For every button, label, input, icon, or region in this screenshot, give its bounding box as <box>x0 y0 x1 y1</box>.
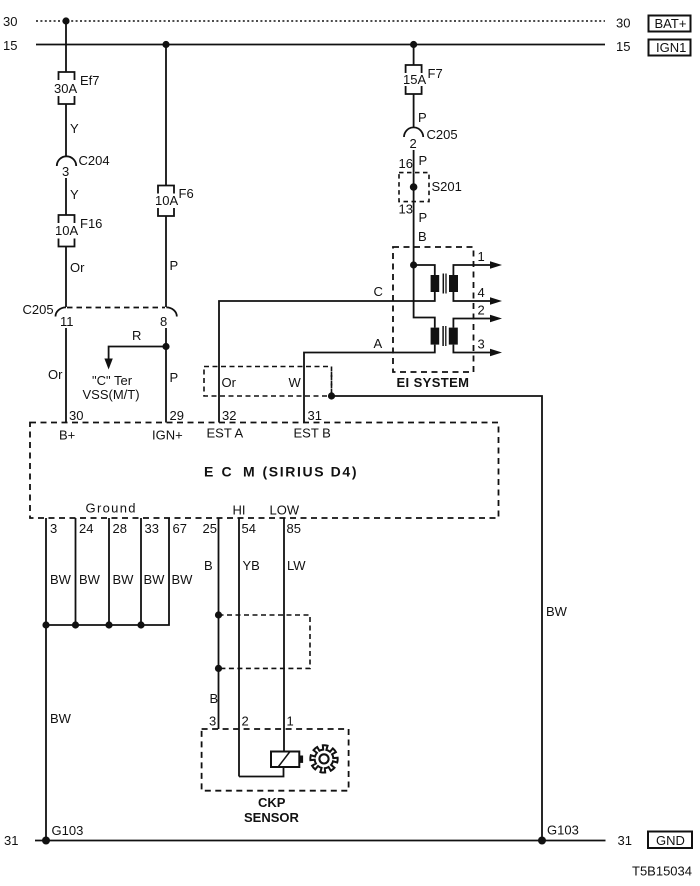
svg-text:B: B <box>210 691 219 706</box>
connector C204 pin 3 <box>57 153 110 179</box>
svg-text:24: 24 <box>79 521 93 536</box>
wire: C205-8 down to ECM pin 29 <box>165 328 167 423</box>
svg-text:BW: BW <box>50 572 72 587</box>
coil 2 core <box>442 326 444 346</box>
svg-text:15: 15 <box>616 39 630 54</box>
svg-text:Y: Y <box>70 187 79 202</box>
arrow output 4 <box>490 297 502 304</box>
bus 30 (BAT+ rail) <box>36 20 605 22</box>
svg-text:10A: 10A <box>155 193 178 208</box>
arrow output 3 <box>490 349 502 356</box>
shield dashed box around HI/LOW pair <box>219 615 311 668</box>
svg-text:BW: BW <box>546 604 568 619</box>
wire: C204 to fuse F16, label Y <box>65 178 67 215</box>
svg-text:30A: 30A <box>54 81 77 96</box>
ignition coil 2 primary winding <box>431 328 440 345</box>
node: shield dots on B wire <box>215 611 222 618</box>
svg-text:C: C <box>374 284 383 299</box>
ECM bottom pin 67 wire <box>46 518 169 625</box>
svg-text:67: 67 <box>173 521 187 536</box>
svg-text:R: R <box>132 328 141 343</box>
svg-text:YB: YB <box>243 558 260 573</box>
node: junction dot for R branch <box>162 343 169 350</box>
coil 1 core <box>442 274 444 294</box>
svg-text:G103: G103 <box>52 823 84 838</box>
svg-text:P: P <box>170 258 179 273</box>
svg-text:BAT+: BAT+ <box>655 16 687 31</box>
svg-text:B+: B+ <box>59 428 75 443</box>
wire: B dot to coil1 primary top <box>414 265 435 275</box>
inline connector box (Or / W) <box>204 367 332 397</box>
svg-text:F7: F7 <box>428 66 443 81</box>
fuse Ef7 30A <box>54 72 100 104</box>
svg-text:BW: BW <box>172 572 194 587</box>
wire: F6 down to C205 pin 8, label P <box>165 216 167 307</box>
wire: F7 to C205 pin 2, label P <box>413 94 415 128</box>
svg-text:30: 30 <box>69 408 83 423</box>
svg-text:28: 28 <box>113 521 127 536</box>
node: junction dot at drain <box>328 392 335 399</box>
CKP pickup element <box>271 752 303 768</box>
svg-text:EI SYSTEM: EI SYSTEM <box>397 375 470 390</box>
svg-text:33: 33 <box>145 521 159 536</box>
svg-text:C205: C205 <box>23 302 54 317</box>
wire: coil2 primary bottom to EST-B line <box>304 345 435 423</box>
svg-text:BW: BW <box>79 572 101 587</box>
svg-text:VSS(M/T): VSS(M/T) <box>83 387 140 402</box>
svg-text:P: P <box>419 210 428 225</box>
bus 15 (IGN1 rail) <box>36 44 605 46</box>
svg-text:16: 16 <box>399 156 413 171</box>
svg-text:P: P <box>418 110 427 125</box>
wire: shield drain dashed drop <box>331 372 333 396</box>
node: junction dot on B wire inside EI system <box>410 261 417 268</box>
fuse F6 10A <box>155 186 194 217</box>
node: junction dot on bus 15 at F7 feed <box>410 41 417 48</box>
svg-text:CKP: CKP <box>258 795 286 810</box>
wire: C205-11 down to ECM pin 30, label Or <box>65 328 67 423</box>
ignition coil 1 primary winding <box>431 275 440 292</box>
reluctor gear <box>310 745 337 772</box>
ignition coil 1 secondary winding <box>449 275 458 292</box>
connector C205 pin 2 <box>404 127 458 151</box>
IGN1 terminal box <box>649 40 691 56</box>
svg-text:31: 31 <box>4 833 18 848</box>
svg-text:54: 54 <box>242 521 256 536</box>
svg-text:W: W <box>289 375 302 390</box>
svg-text:Ef7: Ef7 <box>80 73 100 88</box>
node: ground dot left G103 <box>42 837 50 845</box>
svg-text:Or: Or <box>222 375 237 390</box>
svg-text:8: 8 <box>160 314 167 329</box>
svg-text:31: 31 <box>618 833 632 848</box>
wire: bus30 down to fuse Ef7 <box>65 21 67 72</box>
svg-text:EST A: EST A <box>207 426 244 441</box>
svg-text:B: B <box>418 229 427 244</box>
node: ground bus junction dots <box>42 621 49 628</box>
svg-text:1: 1 <box>478 249 485 264</box>
svg-text:Y: Y <box>70 121 79 136</box>
svg-text:S201: S201 <box>432 179 462 194</box>
ECM bottom pin 24 wire <box>75 518 77 625</box>
svg-text:Or: Or <box>70 260 85 275</box>
EI SYSTEM dashed box <box>393 247 474 372</box>
svg-text:3: 3 <box>50 521 57 536</box>
wire: coil1 secondary bottom to spark output 4 <box>453 292 491 301</box>
svg-text:B: B <box>204 558 213 573</box>
ECM bottom pin 85 wire (LW) <box>283 518 285 752</box>
wire: coil2 secondary bottom to spark output 3 <box>453 345 491 353</box>
svg-text:3: 3 <box>209 714 216 729</box>
connector C205 (inline, pins 11 / 8) <box>23 302 177 329</box>
svg-text:BW: BW <box>50 711 72 726</box>
svg-text:31: 31 <box>308 408 322 423</box>
splice S201 <box>399 173 462 202</box>
ECM dashed box <box>30 423 499 519</box>
svg-text:"C" Ter: "C" Ter <box>92 373 133 388</box>
svg-text:2: 2 <box>242 714 249 729</box>
wire: coil1 primary bottom to EST-A line <box>219 292 435 423</box>
svg-text:10A: 10A <box>55 223 78 238</box>
arrow output 2 <box>490 315 502 322</box>
wire: drain to right and down to ground, label BW <box>332 396 543 841</box>
svg-text:2: 2 <box>410 136 417 151</box>
svg-text:P: P <box>419 153 428 168</box>
wire: F16 down to C205 pin 11, label Or <box>65 247 67 308</box>
svg-text:SENSOR: SENSOR <box>244 810 300 825</box>
wire: coil2 secondary top to spark output 2 <box>453 319 491 328</box>
svg-text:29: 29 <box>170 408 184 423</box>
svg-text:T5B15034: T5B15034 <box>632 864 692 879</box>
svg-text:3: 3 <box>62 164 69 179</box>
wire: R branch to VSS <box>104 328 166 370</box>
svg-text:C205: C205 <box>427 127 458 142</box>
wire: C205-2 down to S201, labels 16 P <box>413 150 415 173</box>
svg-text:F6: F6 <box>179 186 194 201</box>
ECM bottom pin 3 wire <box>45 518 47 841</box>
wire: S201 down into EI system, labels 13 P B <box>413 202 415 265</box>
svg-text:IGN1: IGN1 <box>656 40 686 55</box>
svg-text:C204: C204 <box>79 153 110 168</box>
svg-text:HI: HI <box>233 503 246 518</box>
GND terminal box <box>648 832 692 849</box>
svg-text:15: 15 <box>3 38 17 53</box>
svg-text:LW: LW <box>287 558 306 573</box>
svg-text:F16: F16 <box>80 216 102 231</box>
svg-text:IGN+: IGN+ <box>152 428 183 443</box>
BAT+ terminal box <box>649 16 691 32</box>
svg-text:3: 3 <box>478 337 485 352</box>
svg-text:32: 32 <box>222 408 236 423</box>
svg-text:30: 30 <box>3 14 17 29</box>
node: ground dot right G103 <box>538 837 546 845</box>
svg-text:BW: BW <box>113 572 135 587</box>
svg-text:1: 1 <box>287 714 294 729</box>
wire: coil1 secondary top to spark output 1 <box>453 265 491 275</box>
ECM bottom pin 54 wire (YB) <box>238 518 240 777</box>
svg-text:85: 85 <box>287 521 301 536</box>
ECM bottom pin 25 wire (B) <box>218 518 220 729</box>
svg-text:LOW: LOW <box>270 503 300 518</box>
svg-text:ECM(SIRIUS D4): ECM(SIRIUS D4) <box>204 464 357 480</box>
svg-text:P: P <box>170 370 179 385</box>
ignition coil 2 secondary winding <box>449 328 458 345</box>
svg-text:EST B: EST B <box>294 426 331 441</box>
svg-text:BW: BW <box>144 572 166 587</box>
svg-text:A: A <box>374 336 383 351</box>
wire: sensor internal from pin2 to pickup coil <box>239 767 284 777</box>
svg-text:15A: 15A <box>403 72 426 87</box>
svg-text:25: 25 <box>203 521 217 536</box>
fuse F7 15A <box>403 65 443 94</box>
wire: bus15 down to fuse F6 <box>165 45 167 186</box>
node: junction dot on bus 30 at B+ feed <box>62 17 69 24</box>
svg-text:11: 11 <box>60 314 74 329</box>
svg-text:Ground: Ground <box>86 501 136 516</box>
fuse F16 10A <box>55 215 102 247</box>
bus 31 (ground rail) <box>35 840 606 842</box>
wire: B wire down and to coil2 primary top <box>414 265 435 328</box>
svg-text:GND: GND <box>656 833 685 848</box>
svg-text:Or: Or <box>48 367 63 382</box>
ECM bottom pin 28 wire <box>108 518 110 625</box>
arrow output 1 <box>490 261 502 268</box>
wire: bus15 down to fuse F7 <box>413 45 415 66</box>
wire: Ef7 to connector C204, label Y <box>65 104 67 156</box>
CKP sensor dashed box <box>202 729 349 791</box>
svg-text:G103: G103 <box>547 823 579 838</box>
svg-text:2: 2 <box>478 303 485 318</box>
ECM bottom pin 33 wire <box>140 518 142 625</box>
svg-text:4: 4 <box>478 285 485 300</box>
svg-text:30: 30 <box>616 16 630 31</box>
node: junction dot on bus 15 at IGN+ feed <box>162 41 169 48</box>
svg-text:13: 13 <box>399 202 413 217</box>
